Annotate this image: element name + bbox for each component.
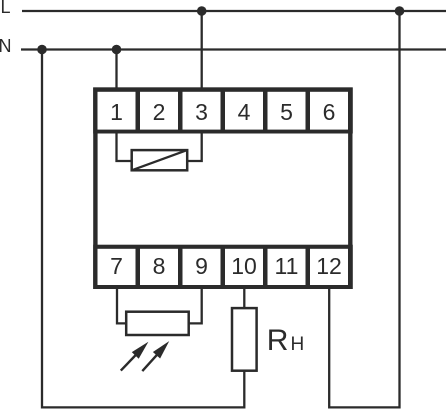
terminal 8 — [140, 249, 178, 285]
wire L right side down and to terminal 12 — [329, 11, 399, 407]
terminal 10 — [225, 249, 263, 285]
terminal 11 — [268, 249, 306, 285]
label RH — [267, 324, 304, 357]
svg-text:6: 6 — [323, 99, 336, 125]
wire L to terminal 3 — [201, 11, 203, 90]
wire L line — [22, 10, 446, 12]
device body outline — [95, 90, 350, 287]
wire terminal 10 to RH — [243, 287, 245, 308]
svg-text:H: H — [291, 334, 305, 355]
terminal 4 — [225, 92, 263, 130]
terminal 3 — [183, 92, 221, 130]
wire N to bottom-left rail and up to RH bottom — [42, 50, 244, 408]
terminal 7 — [98, 249, 136, 285]
wire relay contact to terminal 3 — [187, 133, 202, 161]
svg-text:L: L — [1, 0, 11, 17]
terminal 5 — [268, 92, 306, 130]
svg-text:3: 3 — [195, 99, 208, 125]
wire N line — [21, 48, 446, 50]
svg-text:10: 10 — [231, 253, 257, 279]
photoresistor body — [126, 312, 189, 335]
svg-text:2: 2 — [153, 99, 166, 125]
svg-text:5: 5 — [280, 99, 293, 125]
resistor RH — [232, 308, 257, 371]
svg-text:7: 7 — [110, 253, 123, 279]
relay contact K1 — [132, 150, 188, 170]
wire terminal 1 to relay contact — [117, 133, 132, 161]
light arrow 1 — [121, 342, 149, 371]
svg-text:4: 4 — [238, 99, 251, 125]
terminal strip top band — [93, 87, 353, 133]
terminal 12 — [310, 249, 348, 285]
svg-text:1: 1 — [110, 99, 123, 125]
light arrow 2 — [142, 341, 169, 371]
wire photoresistor to terminal 9 — [189, 287, 202, 323]
terminal 6 — [310, 92, 348, 130]
terminal 9 — [183, 249, 221, 285]
node junction dot on N at x=116.5 — [112, 45, 122, 55]
svg-text:12: 12 — [316, 253, 342, 279]
svg-text:8: 8 — [153, 253, 166, 279]
node junction dot on N at x=42 — [37, 45, 47, 55]
terminal 2 — [140, 92, 178, 130]
svg-text:R: R — [267, 324, 289, 357]
wire terminal 7 to photoresistor — [117, 287, 126, 323]
terminal 1 — [98, 92, 136, 130]
terminal strip bottom band — [93, 245, 353, 289]
svg-text:11: 11 — [275, 253, 299, 279]
svg-text:9: 9 — [195, 253, 208, 279]
node junction dot on L at x=201.7 — [197, 6, 207, 16]
wire N to terminal 1 — [115, 50, 117, 91]
node junction dot on L at x=399.5 — [395, 6, 405, 16]
svg-text:N: N — [0, 36, 12, 56]
